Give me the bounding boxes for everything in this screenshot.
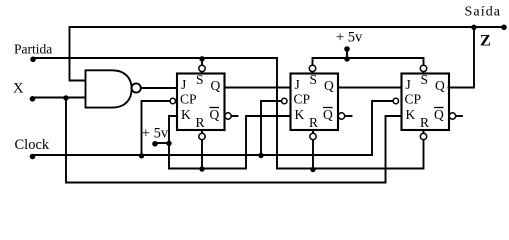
wire Q1 to J2 (225, 87, 291, 89)
nand gate G1 (86, 70, 141, 107)
wire R1 drop (201, 140, 203, 169)
junction +5v stub (166, 141, 171, 146)
U1 S bubble (199, 65, 205, 71)
svg-text:J: J (295, 77, 300, 92)
U1 Qbar overline (210, 107, 220, 109)
svg-text:Z: Z (480, 33, 491, 50)
svg-text:+ 5v: + 5v (142, 126, 169, 142)
svg-text:Partida: Partida (14, 42, 52, 57)
junction CP1 clock (139, 153, 144, 158)
wire S1 bubble to box (201, 72, 203, 74)
wire CP3 feed (372, 101, 393, 155)
svg-text:+ 5v: + 5v (336, 30, 363, 46)
wire top feedback rail (Saida to NAND input) (70, 27, 505, 81)
junction R2 rail (310, 167, 315, 172)
svg-text:Q: Q (210, 107, 220, 122)
U3 Qbar bubble (449, 113, 455, 119)
wire +5v stub left (155, 142, 169, 144)
svg-text:K: K (295, 107, 305, 122)
svg-text:R: R (420, 115, 429, 130)
junction R1 rail (199, 166, 204, 171)
svg-text:Q: Q (211, 78, 221, 93)
svg-text:S: S (310, 72, 318, 87)
U2 Qbar bubble (338, 113, 344, 119)
terminal Saida (501, 25, 507, 31)
wire Clock line (33, 154, 373, 156)
U2 CP bubble (282, 98, 287, 103)
terminal X (30, 96, 36, 102)
svg-text:Clock: Clock (15, 137, 50, 153)
wire S1 stub (201, 58, 203, 65)
U1 CP bubble (170, 98, 175, 103)
wire Q3-bar dash (457, 115, 463, 117)
wire R3 bubble stub (423, 130, 425, 133)
svg-text:R: R (196, 115, 205, 130)
wire NAND output to J1 (140, 87, 177, 89)
flip-flop U1 box (177, 74, 225, 131)
svg-text:Saída: Saída (465, 5, 502, 20)
flip-flop U2 box (291, 74, 339, 131)
U3 R bubble (420, 133, 426, 139)
flip-flop U3 box (402, 74, 450, 131)
svg-text:CP: CP (405, 92, 422, 107)
junction S1 on Partida line (199, 56, 204, 61)
svg-text:Q: Q (435, 78, 445, 93)
wire +5v net K1 R1 K2 (169, 116, 291, 169)
junction +5v rail (344, 56, 349, 61)
wire CP1 feed (142, 101, 171, 155)
U3 S bubble (420, 65, 426, 71)
wire Q1-bar dash (232, 115, 238, 117)
svg-text:X: X (13, 81, 24, 97)
U2 Qbar overline (323, 107, 333, 109)
U2 R bubble (310, 133, 316, 139)
terminal +5v top (344, 46, 350, 52)
wire Partida line (33, 57, 277, 59)
U1 R bubble (199, 133, 205, 139)
wire Q2-bar dash (346, 115, 352, 117)
svg-text:R: R (309, 115, 318, 130)
junction X line (63, 95, 68, 100)
wire +5v stub top (346, 49, 348, 58)
U2 S bubble (309, 65, 315, 71)
junction CP2 clock (258, 153, 263, 158)
svg-text:K: K (406, 107, 416, 122)
svg-text:K: K (181, 107, 191, 122)
wire R2 drop (312, 140, 314, 169)
wire X feed bottom rail to K3 (66, 98, 402, 183)
wire X input to NAND (33, 97, 86, 99)
wire Partida reset route to R3 with R2 tap rail (277, 58, 424, 169)
svg-text:J: J (406, 77, 411, 92)
svg-text:Q: Q (434, 107, 444, 122)
terminal Partida (30, 57, 36, 63)
svg-text:CP: CP (180, 92, 197, 107)
wire CP2 feed (261, 101, 282, 155)
wire Q2 to J3 (338, 87, 402, 89)
U3 CP bubble (393, 98, 398, 103)
wire S2 bubble to box (312, 72, 314, 74)
wire +5v rail to S2 S3 (313, 58, 424, 65)
svg-text:CP: CP (294, 92, 311, 107)
svg-text:Q: Q (324, 78, 334, 93)
svg-text:J: J (181, 77, 186, 92)
wire R2 bubble stub (312, 130, 314, 133)
wire S3 bubble to box (423, 72, 425, 74)
U3 Qbar overline (434, 107, 444, 109)
wire R1 bubble stub (201, 130, 203, 133)
U1 Qbar bubble (225, 113, 231, 119)
svg-text:Q: Q (323, 107, 333, 122)
svg-text:S: S (421, 72, 429, 87)
junction Saida rail (471, 25, 476, 30)
svg-text:S: S (196, 72, 204, 87)
terminal +5v left (152, 141, 158, 147)
terminal Clock (30, 154, 36, 160)
wire Q3 output up to Saida rail (449, 27, 475, 88)
